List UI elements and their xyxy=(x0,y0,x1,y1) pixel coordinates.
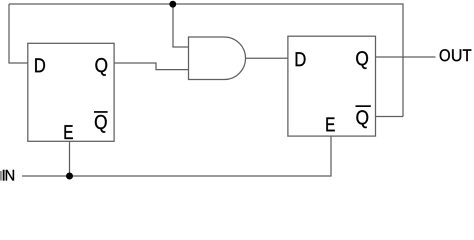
pin label D of U1 xyxy=(35,58,45,72)
node junction on top rail xyxy=(169,1,176,8)
wire junction drop to AND gate input A xyxy=(173,4,189,47)
latch U1 body xyxy=(28,43,114,141)
net label OUT xyxy=(440,49,472,61)
pin label Qbar of U1 xyxy=(94,111,108,133)
pin label E of U3 xyxy=(326,118,334,132)
cropped glyph fragment at left edge xyxy=(0,171,2,181)
wire IN rail to E of U3 xyxy=(22,136,331,176)
wire left drop to D input of U1 xyxy=(9,4,28,63)
wire E drop of U1 xyxy=(69,141,71,176)
wire top feedback rail xyxy=(9,4,403,117)
pin label Q of U3 xyxy=(356,51,368,69)
wire Q of U1 to AND gate input B xyxy=(114,63,188,70)
and-gate U2 xyxy=(189,37,246,80)
node junction on IN rail xyxy=(66,173,73,180)
wire AND gate output to D input of U3 xyxy=(246,57,288,59)
pin label Qbar of U3 xyxy=(356,105,371,128)
net label IN xyxy=(3,170,14,181)
latch U3 body xyxy=(288,36,376,136)
wire Q of U3 to OUT xyxy=(376,56,436,58)
pin label D of U3 xyxy=(296,52,306,66)
wire Qbar of U3 to feedback riser xyxy=(376,116,404,118)
pin label E of U1 xyxy=(65,125,73,139)
pin label Q of U1 xyxy=(95,58,107,76)
